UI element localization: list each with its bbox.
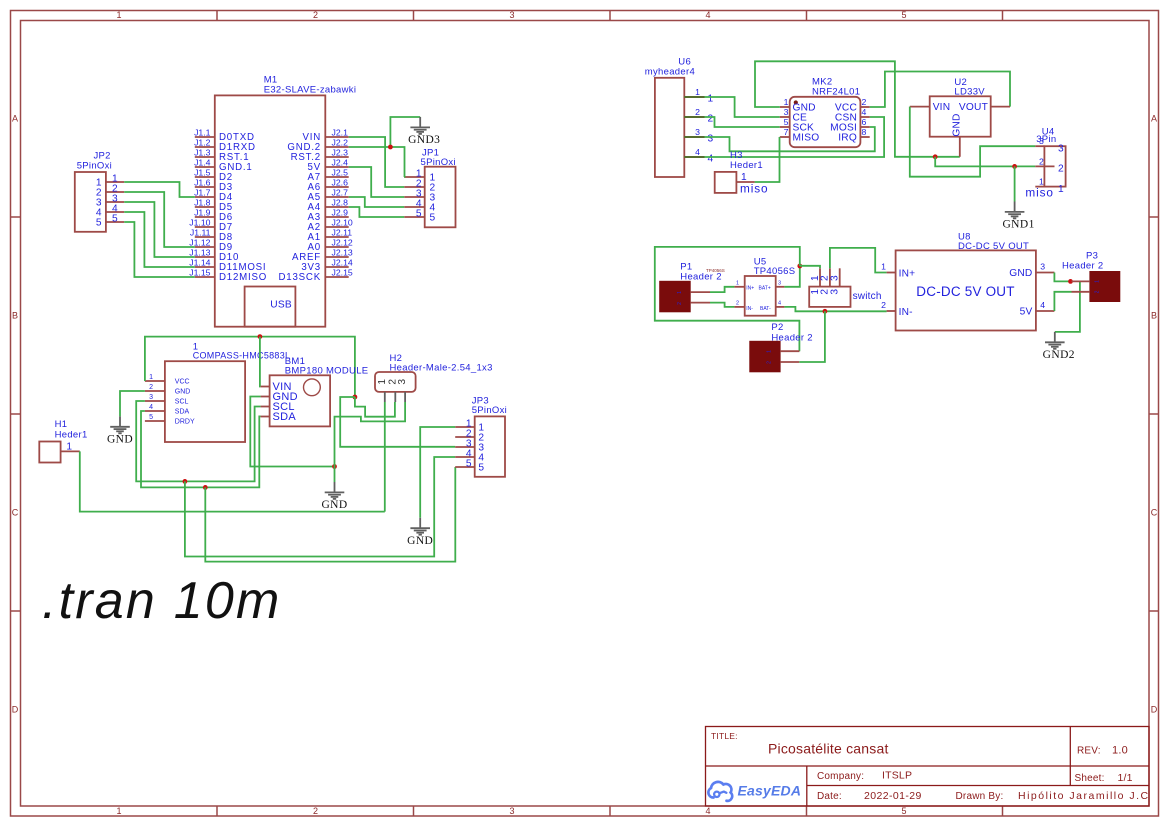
svg-text:1: 1 — [377, 379, 388, 385]
svg-text:2: 2 — [1095, 290, 1101, 293]
svg-text:3: 3 — [830, 275, 841, 281]
svg-text:J2.12: J2.12 — [332, 238, 353, 248]
svg-text:6: 6 — [862, 117, 867, 127]
svg-text:5: 5 — [901, 806, 906, 816]
wire U8 GND to P3.1 — [1054, 273, 1071, 282]
svg-text:SCL: SCL — [175, 399, 189, 406]
wire GND net to flag — [334, 467, 336, 483]
svg-text:GND: GND — [407, 535, 433, 547]
wire rail to H2 pin2 — [355, 397, 395, 417]
svg-text:DRDY: DRDY — [175, 419, 195, 426]
svg-text:GND: GND — [175, 389, 191, 396]
svg-text:3: 3 — [708, 134, 714, 145]
wire BM1 VIN drop — [259, 337, 262, 387]
svg-text:5: 5 — [784, 117, 789, 127]
svg-text:3: 3 — [149, 394, 153, 401]
module U8 DC-DC 5V OUT — [881, 232, 1054, 331]
svg-text:2: 2 — [767, 361, 773, 364]
svg-text:VOUT: VOUT — [959, 102, 988, 113]
svg-text:J2.5: J2.5 — [332, 168, 349, 178]
svg-text:2: 2 — [862, 97, 867, 107]
junction GND1 branch — [1012, 164, 1017, 169]
svg-text:B: B — [12, 311, 18, 321]
svg-text:miso: miso — [1025, 186, 1054, 200]
svg-text:4: 4 — [708, 154, 714, 165]
svg-text:J2.10: J2.10 — [332, 218, 353, 228]
svg-text:5: 5 — [430, 212, 436, 223]
wire H2.1 to H1 rail — [384, 402, 386, 512]
svg-text:1: 1 — [767, 350, 773, 353]
svg-text:B: B — [1151, 311, 1157, 321]
svg-text:D: D — [12, 705, 19, 715]
svg-text:J1.9: J1.9 — [194, 208, 211, 218]
svg-text:J2.9: J2.9 — [332, 208, 349, 218]
svg-text:DC-DC 5V OUT: DC-DC 5V OUT — [916, 284, 1014, 299]
svg-text:1: 1 — [149, 374, 153, 381]
svg-text:2022-01-29: 2022-01-29 — [864, 790, 922, 802]
IC MK2 NRF24L01 — [780, 77, 870, 148]
svg-text:.tran 10m: .tran 10m — [42, 572, 281, 630]
connector P3 Header 2 — [1062, 251, 1120, 302]
svg-text:1.0: 1.0 — [1112, 745, 1128, 757]
wire compass VCC rail — [145, 337, 355, 397]
svg-text:2: 2 — [708, 114, 714, 125]
svg-text:LD33V: LD33V — [954, 86, 985, 97]
junction SDA rail — [203, 485, 208, 490]
svg-text:J1.1: J1.1 — [194, 128, 211, 138]
junction on GND.2 net — [388, 145, 393, 150]
svg-text:4: 4 — [149, 404, 153, 411]
wire compass SCL to BM1 SCL — [136, 401, 260, 481]
svg-text:REV:: REV: — [1077, 746, 1101, 757]
wire switch.1 to BAT+ node — [800, 266, 820, 269]
wire JP3.1 to GND — [420, 427, 455, 518]
svg-text:2: 2 — [149, 384, 153, 391]
svg-text:J2.4: J2.4 — [332, 158, 349, 168]
svg-text:2: 2 — [881, 300, 886, 310]
wire U8 5V to P3.2 — [1054, 292, 1071, 311]
svg-text:VIN: VIN — [933, 102, 951, 113]
svg-text:Header-Male-2.54_1x3: Header-Male-2.54_1x3 — [390, 363, 493, 374]
svg-text:1: 1 — [708, 94, 714, 105]
svg-text:5: 5 — [416, 208, 422, 219]
wire BM1 GND loop — [250, 397, 334, 467]
wire P1.1 to U5 IN+ — [710, 287, 734, 292]
svg-text:USB: USB — [270, 300, 292, 311]
wire H1.1 rail — [80, 451, 385, 511]
svg-text:3: 3 — [830, 289, 841, 295]
ground GND (BM1) — [321, 482, 347, 511]
svg-text:D13SCK: D13SCK — [279, 272, 322, 283]
junction SCL rail — [183, 479, 188, 484]
svg-text:Heder1: Heder1 — [55, 430, 88, 441]
title block — [706, 727, 1150, 807]
connector P1 Header 2 — [660, 262, 725, 312]
svg-text:IRQ: IRQ — [838, 133, 857, 144]
connector H1 Heder1 — [39, 419, 87, 463]
connector JP2 5PinOxi — [75, 151, 124, 232]
svg-text:3: 3 — [509, 10, 514, 20]
junction BM1 GND net — [332, 464, 337, 469]
svg-text:BAT-: BAT- — [760, 306, 771, 312]
svg-text:IN+: IN+ — [899, 269, 916, 280]
svg-text:J1.3: J1.3 — [194, 148, 211, 158]
wire GND3 branch — [390, 117, 420, 147]
wire JP2.1 to M1 J1.7 — [124, 182, 195, 197]
svg-text:J2.6: J2.6 — [332, 178, 349, 188]
svg-text:3: 3 — [778, 281, 781, 287]
junction VCC rail / BM1 VIN — [258, 334, 263, 339]
svg-text:Company:: Company: — [817, 771, 864, 782]
svg-text:Sheet:: Sheet: — [1075, 773, 1105, 784]
svg-text:J1.11: J1.11 — [190, 228, 211, 238]
svg-text:COMPASS-HMC5883L: COMPASS-HMC5883L — [193, 351, 291, 361]
svg-text:1/1: 1/1 — [1118, 772, 1133, 784]
svg-text:J2.1: J2.1 — [332, 128, 349, 138]
wire JP2.4 to M1 J1.14 — [124, 212, 195, 267]
junction BAT+ node — [797, 264, 802, 269]
svg-text:EasyEDA: EasyEDA — [738, 782, 802, 798]
svg-text:TP4056S: TP4056S — [706, 268, 725, 273]
wire loop to P2.1 — [655, 247, 800, 351]
svg-text:Heder1: Heder1 — [730, 160, 763, 171]
wire GND2 branch — [1055, 281, 1080, 332]
svg-text:myheader4: myheader4 — [645, 67, 695, 78]
svg-text:A: A — [12, 114, 18, 124]
wire SCL rail to JP3.4 — [185, 457, 455, 557]
svg-text:Header 2: Header 2 — [771, 333, 812, 344]
svg-text:4: 4 — [778, 301, 781, 307]
svg-text:GND: GND — [107, 433, 133, 445]
svg-text:2: 2 — [313, 806, 318, 816]
svg-text:NRF24L01: NRF24L01 — [812, 87, 860, 98]
svg-text:J2.7: J2.7 — [332, 188, 349, 198]
svg-text:D: D — [1151, 705, 1158, 715]
junction P2.2 branch — [823, 309, 828, 314]
svg-text:5PinOxi: 5PinOxi — [421, 157, 456, 168]
svg-text:TP4056S: TP4056S — [754, 266, 796, 277]
svg-text:A: A — [1151, 114, 1157, 124]
svg-text:J1.5: J1.5 — [194, 168, 211, 178]
svg-text:BAT+: BAT+ — [759, 285, 771, 291]
wire compass SDA to BM1 SDA — [141, 411, 261, 487]
svg-text:3: 3 — [695, 127, 700, 137]
junction VCC rail corner — [353, 395, 358, 400]
wire MK2 VCC to U2 VOUT — [870, 72, 1010, 108]
svg-text:TITLE:: TITLE: — [711, 731, 738, 741]
svg-text:4: 4 — [705, 10, 710, 20]
svg-text:J1.7: J1.7 — [194, 188, 211, 198]
wire JP2.2 to M1 J1.12 — [124, 192, 195, 247]
wire switch.2 to U8 IN+ — [830, 248, 887, 273]
svg-text:Header 2: Header 2 — [680, 271, 721, 282]
connector JP1 5PinOxi — [404, 148, 456, 228]
svg-text:1: 1 — [66, 442, 72, 453]
svg-text:7: 7 — [784, 127, 789, 137]
svg-text:5: 5 — [466, 458, 472, 469]
svg-text:DC-DC 5V OUT: DC-DC 5V OUT — [958, 241, 1029, 252]
wire M1 J2.2 GND.2 to JP1.1 — [349, 147, 405, 177]
wire U6.1 to MK2 CE — [705, 97, 780, 117]
svg-text:J2.11: J2.11 — [332, 228, 353, 238]
IC M1 E32-SLAVE-zabawki — [189, 75, 356, 327]
switch S1 — [809, 268, 881, 307]
ground GND (JP3) — [407, 518, 433, 547]
wire rail to JP3.3 — [340, 397, 455, 447]
IC U5 TP4056S — [734, 257, 795, 316]
svg-text:IN+: IN+ — [746, 285, 754, 291]
svg-text:J2.14: J2.14 — [332, 258, 353, 268]
svg-text:2: 2 — [736, 301, 739, 307]
svg-text:5PinOxi: 5PinOxi — [472, 405, 507, 416]
wire compass GND — [120, 391, 145, 416]
wire GND1 drop — [1014, 166, 1016, 201]
svg-text:BMP180 MODULE: BMP180 MODULE — [285, 366, 369, 377]
svg-text:J1.6: J1.6 — [194, 178, 211, 188]
svg-text:3: 3 — [397, 379, 408, 385]
svg-text:2: 2 — [1039, 156, 1044, 166]
svg-text:3: 3 — [1039, 136, 1044, 146]
svg-text:Drawn By:: Drawn By: — [956, 791, 1004, 802]
wire SDA rail to JP3.5 — [205, 467, 455, 562]
wire M1 J2.7 A5 to JP1.4 — [349, 197, 405, 207]
IC 1 COMPASS-HMC5883L — [145, 342, 290, 443]
svg-text:switch: switch — [853, 291, 882, 302]
svg-text:ITSLP: ITSLP — [882, 770, 912, 782]
ground GND1 — [1002, 202, 1034, 231]
svg-text:5PinOxi: 5PinOxi — [77, 160, 112, 171]
svg-text:4: 4 — [1040, 300, 1045, 310]
svg-text:GND: GND — [952, 113, 963, 136]
svg-text:H1: H1 — [55, 419, 68, 430]
svg-text:5V: 5V — [1020, 307, 1033, 318]
EasyEDA logo — [708, 782, 801, 801]
wire U6.4 to MK2 CSN — [705, 117, 885, 157]
svg-text:2: 2 — [313, 10, 318, 20]
ground GND2 — [1043, 332, 1075, 361]
svg-text:3: 3 — [784, 107, 789, 117]
svg-text:2: 2 — [695, 107, 700, 117]
svg-text:5: 5 — [901, 10, 906, 20]
junction P3.1 node — [1068, 279, 1073, 284]
wire U6.2 to MK2 SCK — [705, 117, 780, 127]
svg-text:Date:: Date: — [817, 791, 842, 802]
svg-text:J1.8: J1.8 — [194, 198, 211, 208]
svg-text:GND: GND — [321, 499, 347, 511]
svg-text:J1.4: J1.4 — [194, 158, 211, 168]
svg-text:GND2: GND2 — [1043, 349, 1075, 361]
wire P1.2 to U5 IN- — [710, 303, 734, 307]
svg-text:1: 1 — [677, 291, 683, 294]
svg-text:C: C — [1151, 508, 1158, 518]
connector H3 Heder1 — [715, 150, 763, 193]
wire M1 J2.8 A4 to JP1.5 — [349, 207, 405, 217]
wire U5 BAT- to U8 IN- — [784, 307, 886, 311]
svg-text:4: 4 — [862, 107, 867, 117]
svg-text:J2.15: J2.15 — [332, 268, 353, 278]
svg-text:3: 3 — [509, 806, 514, 816]
svg-text:2: 2 — [1058, 164, 1064, 175]
wire U5 BAT+ to loop — [784, 266, 799, 287]
svg-text:4: 4 — [705, 806, 710, 816]
wire U6.3 to MK2 MOSI — [705, 127, 875, 151]
svg-text:IN-: IN- — [746, 306, 753, 312]
svg-text:1: 1 — [116, 10, 121, 20]
svg-text:5: 5 — [96, 217, 102, 228]
ground GND (compass) — [107, 416, 133, 445]
svg-text:miso: miso — [740, 182, 769, 196]
svg-text:4: 4 — [695, 147, 700, 157]
svg-text:5: 5 — [149, 414, 153, 421]
ground GND3 — [408, 117, 440, 146]
wire M1 J2.1 VIN to JP1.2 — [349, 137, 405, 187]
svg-text:5: 5 — [112, 213, 118, 224]
connector H2 Header-Male-2.54_1x3 — [375, 353, 493, 402]
junction GND net / U2 GND — [933, 154, 938, 159]
svg-text:SDA: SDA — [175, 409, 190, 416]
svg-text:GND1: GND1 — [1002, 219, 1034, 231]
svg-text:1: 1 — [1058, 184, 1064, 195]
svg-text:C: C — [12, 508, 19, 518]
svg-text:IN-: IN- — [899, 307, 913, 318]
module BM1 BMP180 — [261, 356, 369, 426]
wire U2 VIN to U4.3 — [910, 107, 1036, 177]
connector P2 Header 2 — [750, 322, 813, 372]
svg-text:Header 2: Header 2 — [1062, 261, 1103, 272]
connector U4 3Pin — [1035, 127, 1065, 195]
svg-text:E32-SLAVE-zabawki: E32-SLAVE-zabawki — [264, 84, 357, 95]
svg-text:J2.8: J2.8 — [332, 198, 349, 208]
svg-text:J1.10: J1.10 — [189, 218, 210, 228]
svg-text:Picosatélite cansat: Picosatélite cansat — [768, 741, 889, 757]
svg-text:1: 1 — [736, 281, 739, 287]
wire MK2 GND net — [755, 61, 960, 157]
svg-text:1: 1 — [695, 87, 700, 97]
svg-text:1: 1 — [784, 97, 789, 107]
svg-text:P2: P2 — [771, 322, 783, 333]
svg-text:MISO: MISO — [793, 133, 820, 144]
svg-text:3: 3 — [1058, 143, 1064, 154]
svg-text:1: 1 — [1095, 280, 1101, 283]
svg-text:GND: GND — [1009, 268, 1032, 279]
wire MK2 MISO to H3.1 — [755, 137, 780, 182]
svg-text:5: 5 — [478, 462, 484, 473]
svg-text:1: 1 — [116, 806, 121, 816]
svg-text:D12MISO: D12MISO — [219, 272, 267, 283]
svg-text:1: 1 — [881, 262, 886, 272]
svg-text:J2.13: J2.13 — [332, 248, 353, 258]
connector JP3 5PinOxi — [455, 396, 507, 477]
svg-text:3: 3 — [1040, 262, 1045, 272]
svg-text:Hipólito Jaramillo J.C: Hipólito Jaramillo J.C — [1018, 790, 1150, 802]
wire M1 J2.4 5V to JP1.3 — [349, 167, 405, 197]
svg-text:J2.2: J2.2 — [332, 138, 349, 148]
wire JP2.5 to M1 J1.15 — [124, 222, 195, 277]
connector U6 myheader4 — [645, 57, 714, 178]
wire GND net to U4.2 — [935, 157, 1035, 167]
wire JP2.3 to M1 J1.13 — [124, 202, 195, 257]
svg-text:2: 2 — [677, 302, 683, 305]
svg-text:8: 8 — [862, 127, 867, 137]
svg-text:GND3: GND3 — [408, 134, 440, 146]
svg-text:VCC: VCC — [175, 379, 190, 386]
svg-text:J2.3: J2.3 — [332, 148, 349, 158]
wire P2.2 branch — [799, 311, 825, 362]
regulator U2 LD33V — [910, 77, 1010, 157]
wire GND net to H2 pin3 — [335, 402, 406, 467]
svg-text:J1.2: J1.2 — [194, 138, 211, 148]
svg-text:SDA: SDA — [273, 411, 297, 423]
